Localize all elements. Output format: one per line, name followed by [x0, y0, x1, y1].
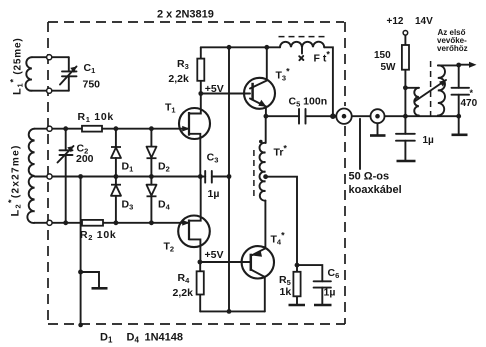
svg-text:200: 200 [76, 153, 94, 165]
svg-text:C5 100n: C5 100n [289, 95, 328, 108]
svg-text:150: 150 [374, 50, 391, 61]
svg-text:50 Ω-os: 50 Ω-os [349, 171, 390, 183]
svg-text:2 x 2N3819: 2 x 2N3819 [157, 8, 214, 20]
svg-text:2,2k: 2,2k [168, 73, 189, 85]
svg-text:R1 10k: R1 10k [78, 111, 114, 124]
svg-text:5W: 5W [381, 62, 397, 73]
svg-text:+12: +12 [387, 16, 404, 27]
svg-text:1N4148: 1N4148 [145, 331, 184, 343]
svg-text:+5V: +5V [205, 83, 224, 95]
svg-text:1µ: 1µ [423, 135, 435, 146]
svg-text:750: 750 [83, 79, 101, 91]
svg-text:*: * [470, 88, 474, 98]
svg-text:R2 10k: R2 10k [80, 229, 116, 242]
svg-text:1µ: 1µ [208, 188, 220, 200]
svg-text:1µ: 1µ [324, 286, 336, 298]
svg-text:+5V: +5V [205, 249, 224, 261]
svg-text:verőhöz: verőhöz [437, 44, 468, 53]
svg-text:1k: 1k [280, 286, 292, 298]
svg-text:14V: 14V [415, 16, 433, 27]
svg-text:2,2k: 2,2k [173, 287, 194, 299]
svg-text:470: 470 [461, 98, 478, 109]
svg-text:koaxkábel: koaxkábel [349, 184, 402, 196]
